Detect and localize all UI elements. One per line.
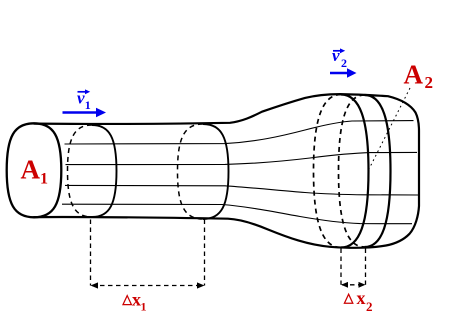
cross-section R1 solid front half [341, 95, 369, 248]
dimension dx2 arrow line [342, 284, 365, 286]
svg-text:A: A [404, 59, 424, 89]
svg-text:2: 2 [341, 56, 347, 70]
dimension dx2 right arrowhead [359, 282, 366, 288]
streamline 2 [66, 152, 418, 164]
v2 overbar arrow [333, 50, 342, 52]
svg-text:1: 1 [85, 98, 91, 112]
svg-text:1: 1 [141, 300, 147, 314]
velocity vector v2 arrow [330, 72, 349, 75]
wire tube outline top edge [34, 94, 419, 248]
dimension dx2 left extension line [340, 249, 342, 285]
dimension dx1 left extension line [90, 220, 92, 286]
cross-section L1 dashed back half [68, 125, 93, 217]
streamline 3 [65, 185, 419, 195]
dimension dx1 arrow line [92, 285, 203, 287]
leader line to A2 [369, 88, 410, 169]
left end cap ellipse A1 face [7, 123, 62, 217]
dimension dx1 right extension line [204, 220, 206, 286]
v1 overbar arrow [78, 91, 87, 93]
label delta x2 [344, 294, 352, 303]
cross-section R2 dashed back half [339, 95, 365, 247]
label delta x1 [123, 296, 131, 305]
cross-section L2 dashed back half [178, 124, 204, 219]
cross-section R1 dashed back half [314, 95, 342, 248]
velocity vector v1 arrow [63, 111, 98, 114]
streamline 4 [62, 204, 412, 224]
svg-text:2: 2 [425, 73, 434, 92]
dimension dx1 right arrowhead [197, 282, 205, 288]
cross-section L1 solid front half [92, 125, 117, 217]
svg-text:v: v [332, 46, 340, 65]
svg-text:1: 1 [40, 171, 48, 188]
svg-text:x: x [357, 288, 366, 308]
svg-text:A: A [21, 154, 41, 184]
dimension dx2 right extension line [365, 249, 367, 285]
dimension dx2 left arrowhead [341, 282, 348, 288]
dimension dx1 left arrowhead [91, 282, 99, 288]
cross-section L2 solid front half [203, 124, 229, 219]
cross-section R2 solid front half [365, 95, 391, 247]
streamline 1 [65, 121, 414, 144]
svg-text:2: 2 [366, 299, 373, 314]
